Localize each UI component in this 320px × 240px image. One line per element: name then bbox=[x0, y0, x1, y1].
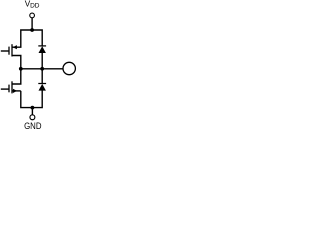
transistor M1 gate bar bbox=[8, 47, 10, 55]
diode D1 anode triangle bbox=[39, 46, 46, 53]
wire output node rail bbox=[21, 68, 63, 70]
wire ground rail with branches bbox=[21, 90, 42, 107]
wire D1 anode to output node to D2 cathode bbox=[41, 53, 43, 84]
GND terminal circle bbox=[30, 115, 35, 120]
wire M2 drain lead up to output node bbox=[12, 69, 20, 84]
svg-text:DD: DD bbox=[30, 2, 39, 9]
node VDD rail junction bbox=[30, 28, 34, 32]
wire GND stem bbox=[31, 108, 33, 115]
transistor M2 channel bar bbox=[11, 81, 13, 93]
transistor M2 gate bar bbox=[8, 85, 10, 93]
background bbox=[0, 0, 79, 131]
transistor M1 (PMOS) gate lead bbox=[1, 50, 9, 52]
pad output terminal bbox=[63, 62, 75, 74]
wire M2 source lead bbox=[12, 90, 20, 92]
svg-text:GND: GND bbox=[24, 121, 42, 131]
diode D1 cathode bar bbox=[38, 45, 46, 47]
transistor M2 source arrow (points away from channel) bbox=[13, 89, 17, 93]
node output left junction bbox=[19, 67, 23, 71]
wire top rail with left and right branches bbox=[12, 30, 42, 47]
diode D2 anode triangle bbox=[39, 84, 46, 91]
transistor M1 channel bar bbox=[11, 44, 13, 56]
node ground junction bbox=[31, 106, 35, 110]
transistor M1 source arrow (points into channel) bbox=[13, 45, 17, 49]
diode D2 cathode bar bbox=[38, 83, 46, 85]
wire M1 drain lead down to output node bbox=[12, 56, 20, 69]
wire VDD stem bbox=[31, 18, 33, 30]
VDD terminal circle bbox=[30, 13, 35, 18]
node output right junction bbox=[40, 67, 44, 71]
transistor M2 (NMOS) gate lead bbox=[1, 88, 9, 90]
